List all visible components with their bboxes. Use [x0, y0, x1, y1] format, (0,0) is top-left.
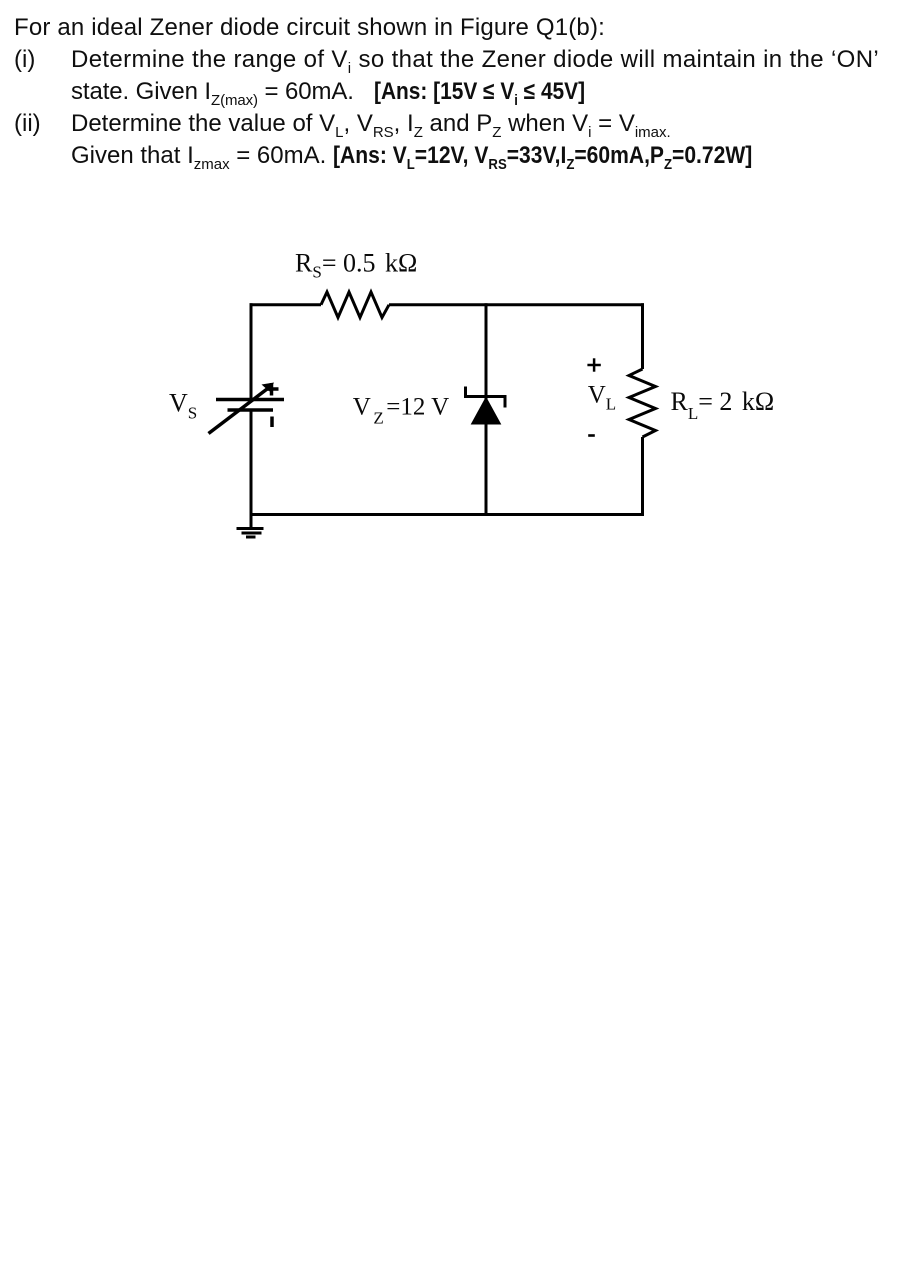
- svg-text:VZ=12 V: VZ=12 V: [353, 394, 449, 428]
- zener diode DZ anode triangle: [472, 398, 501, 425]
- wire: middle branch through zener DZ: [485, 303, 488, 514]
- zener diode DZ cathode bar with bent ends: [466, 387, 506, 408]
- source VS plus polarity mark: [266, 383, 279, 396]
- minus polarity mark for VL: [588, 434, 595, 437]
- wire: bottom rail: [250, 513, 645, 516]
- svg-text:RL= 2 kΩ: RL= 2 kΩ: [671, 387, 775, 423]
- resistor RS: [321, 292, 389, 318]
- label RL = 2 kOhm: [671, 387, 775, 423]
- label VL: [588, 381, 616, 413]
- source VS bottom plate: [228, 408, 274, 412]
- wire: right branch upper (top rail down to RL): [641, 303, 644, 369]
- resistor RL: [629, 369, 656, 437]
- source VS minus polarity tick: [270, 417, 274, 428]
- plus polarity mark for VL: [587, 358, 600, 371]
- wire: right branch lower (RL down to bottom rail): [641, 437, 644, 515]
- wire: left branch upper (top rail down to source VS): [250, 303, 253, 401]
- svg-text:RS= 0.5 kΩ: RS= 0.5 kΩ: [295, 249, 417, 282]
- wire: top rail right segment (RS to RL top corner): [389, 303, 644, 306]
- label VS: [169, 388, 197, 422]
- wire: left branch lower (VS down to bottom rail and ground): [250, 410, 253, 528]
- label VZ = 12 V: [353, 394, 449, 428]
- wire: top rail left segment (source node to RS): [250, 303, 322, 306]
- source VS variability arrow: [209, 383, 275, 434]
- problem statement text: [14, 14, 605, 41]
- svg-text:VL: VL: [588, 381, 616, 413]
- svg-text:VS: VS: [169, 388, 197, 422]
- ground symbol: [237, 529, 264, 538]
- label RS = 0.5 kOhm: [295, 249, 417, 282]
- source VS (variable battery) top plate: [216, 398, 284, 402]
